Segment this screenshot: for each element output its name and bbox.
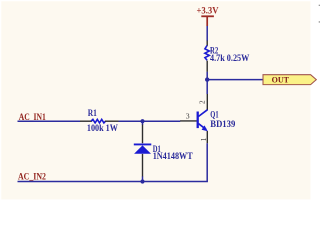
- wire D1 anode to AC_IN2: [142, 176, 144, 181]
- svg-text:R1: R1: [88, 108, 98, 118]
- base pin 3: [180, 120, 197, 122]
- wire junction to OUT port: [207, 79, 263, 81]
- R1 zigzag body: [91, 119, 106, 123]
- D1 cathode bar: [134, 143, 152, 145]
- D1 anode pin: [142, 154, 144, 177]
- port OUT: [263, 75, 316, 85]
- svg-text:3: 3: [186, 111, 190, 120]
- svg-text:+3.3V: +3.3V: [197, 6, 219, 16]
- resistor R2: [205, 41, 249, 72]
- junction dot at R1/D1 node: [140, 119, 144, 123]
- D1 cathode pin: [142, 125, 144, 144]
- svg-text:OUT: OUT: [272, 75, 290, 85]
- svg-text:BD139: BD139: [210, 119, 235, 129]
- D1 triangle body: [134, 145, 151, 153]
- svg-text:1: 1: [200, 137, 208, 141]
- svg-text:1N4148WT: 1N4148WT: [153, 151, 193, 161]
- junction dot at R2/OUT/collector node: [205, 77, 209, 81]
- base bar: [197, 112, 199, 129]
- wire junction to D1 cathode: [142, 121, 144, 125]
- svg-text:AC_IN2: AC_IN2: [18, 172, 46, 182]
- collector pin 2: [206, 94, 208, 110]
- wire R2 to junction to Q1 collector: [206, 72, 208, 94]
- emitter stroke: [198, 124, 206, 130]
- wire R1 to Q1 base: [119, 120, 181, 122]
- svg-text:100k 1W: 100k 1W: [87, 123, 118, 133]
- R2 zigzag body: [205, 45, 209, 60]
- transistor Q1: [180, 94, 236, 143]
- R1 pin 1: [80, 120, 92, 122]
- power +3.3V: [197, 6, 219, 27]
- OUT flag shape: [263, 75, 316, 85]
- wire AC_IN2 line and up to Q1 emitter: [18, 143, 208, 181]
- R2 pin 1: [206, 41, 208, 46]
- svg-text:4.7k 0.25W: 4.7k 0.25W: [210, 53, 249, 63]
- svg-text:Q1: Q1: [210, 110, 219, 120]
- R2 pin 2: [206, 61, 208, 72]
- svg-text:AC_IN1: AC_IN1: [19, 112, 47, 122]
- collector stroke: [198, 110, 207, 117]
- R1 pin 2: [105, 120, 119, 122]
- junction dot at D1/AC_IN2 node: [140, 179, 144, 183]
- emitter pin 1: [206, 131, 208, 143]
- emitter arrowhead: [202, 125, 208, 131]
- resistor R1: [80, 108, 119, 133]
- wire power to R2: [206, 26, 208, 41]
- diode D1: [134, 125, 193, 177]
- wire AC_IN1 to R1: [18, 120, 81, 122]
- svg-text:2: 2: [199, 100, 207, 104]
